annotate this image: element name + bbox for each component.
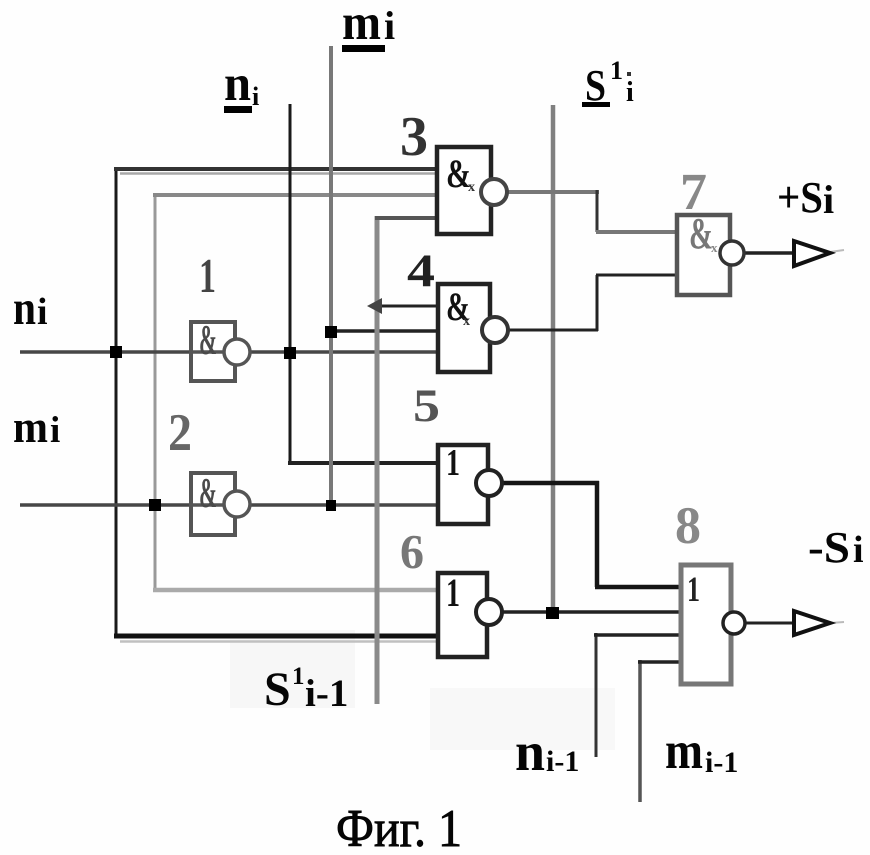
svg-text:n: n [515, 721, 545, 782]
svg-text:i: i [37, 291, 48, 333]
svg-text:i: i [384, 3, 395, 48]
svg-text:i: i [823, 177, 834, 222]
svg-text:n: n [224, 56, 251, 112]
svg-text:n: n [13, 280, 36, 335]
svg-text:i-1: i-1 [705, 746, 738, 779]
svg-text:-S: -S [808, 523, 850, 572]
svg-text:m: m [13, 402, 48, 452]
svg-text:1: 1 [446, 442, 460, 484]
svg-text:3: 3 [400, 106, 428, 168]
svg-text:i-1: i-1 [305, 672, 348, 715]
svg-text:m: m [665, 722, 703, 780]
svg-text:&: & [199, 471, 217, 517]
svg-text:i-1: i-1 [546, 745, 579, 778]
svg-text:x: x [468, 180, 475, 195]
svg-text:6: 6 [400, 524, 424, 579]
svg-text:&: & [199, 318, 217, 364]
svg-text:7: 7 [680, 164, 707, 221]
svg-text:4: 4 [407, 245, 435, 297]
svg-text:1: 1 [199, 248, 216, 303]
svg-text:i: i [252, 82, 259, 111]
svg-text:1: 1 [292, 663, 305, 690]
svg-text:i: i [626, 77, 634, 108]
svg-text:2: 2 [168, 404, 192, 462]
svg-text:1: 1 [446, 570, 460, 615]
svg-text:x: x [711, 240, 718, 255]
svg-text:x: x [463, 314, 470, 329]
svg-text:+S: +S [777, 173, 823, 222]
svg-text:m: m [342, 0, 381, 51]
svg-text:i: i [50, 410, 60, 451]
svg-text:i: i [853, 529, 864, 571]
svg-text:5: 5 [413, 380, 440, 432]
svg-text:Фиг. 1: Фиг. 1 [336, 800, 462, 855]
svg-text:1: 1 [610, 56, 623, 85]
svg-text:S: S [264, 663, 291, 716]
svg-text:1: 1 [687, 569, 700, 609]
svg-text:8: 8 [675, 497, 701, 555]
